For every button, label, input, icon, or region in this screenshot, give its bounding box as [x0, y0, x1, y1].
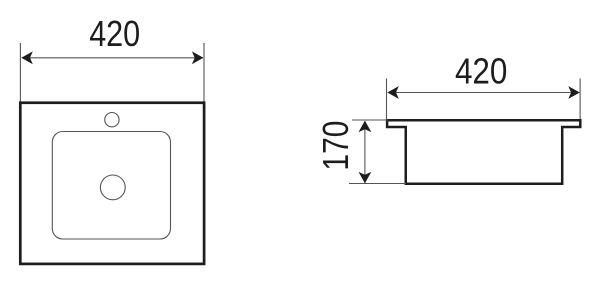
left view: arrowhead left: [21, 51, 33, 64]
svg-text:420: 420: [455, 50, 508, 91]
left view: basin outer square: [20, 103, 204, 264]
right view: arrowhead right: [568, 86, 580, 99]
left view: extension line left: [19, 43, 21, 102]
right view: 170 extension line top: [352, 119, 388, 121]
right view: dimension line 170: [364, 122, 366, 183]
right view: arrowhead down: [359, 172, 372, 184]
left view: extension line right: [203, 43, 205, 102]
svg-text:420: 420: [89, 13, 140, 54]
left view: arrowhead right: [192, 51, 204, 64]
right view: arrowhead left: [387, 86, 399, 99]
left view: faucet hole circle: [105, 113, 119, 127]
right view: dimension line 420: [388, 92, 579, 94]
left view: dimension line 420: [22, 57, 203, 59]
right view: extension line right: [579, 78, 581, 120]
right view: basin profile outline: [387, 120, 580, 183]
right view: 170 extension line bottom: [349, 183, 406, 185]
svg-text:170: 170: [315, 121, 356, 171]
left view: basin inner bowl rounded rect: [52, 132, 170, 240]
right view: arrowhead up: [359, 121, 372, 133]
left view: drain hole circle: [100, 175, 125, 200]
right view: extension line left: [386, 78, 388, 120]
